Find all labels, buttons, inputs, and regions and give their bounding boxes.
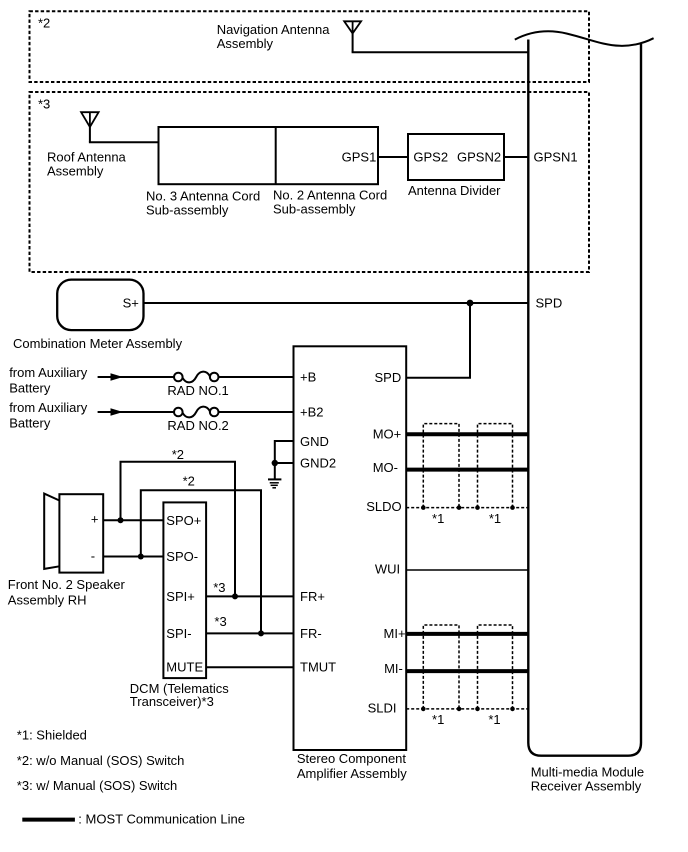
svg-text:SPO+: SPO+: [166, 513, 201, 528]
shield dots SLDI: [421, 707, 515, 712]
shield dots SLDO: [421, 505, 515, 510]
wire SPI+ to FR+: [206, 595, 293, 597]
wire S+ to receiver SPD: [144, 302, 529, 304]
svg-text:GPS2: GPS2: [413, 150, 448, 165]
shield drain wire SLDO: [406, 507, 528, 509]
svg-text:Combination Meter Assembly: Combination Meter Assembly: [13, 336, 183, 351]
antenna (navigation): [344, 21, 361, 52]
svg-text:+: +: [91, 512, 99, 527]
svg-text:SLDI: SLDI: [368, 700, 397, 715]
svg-text:*3: *3: [214, 614, 226, 629]
fuse RAD NO.1: [174, 372, 219, 383]
combination meter assembly box: [57, 280, 143, 331]
wire WUI: [406, 569, 528, 571]
svg-text:SPO-: SPO-: [166, 549, 198, 564]
junction dot FR-: [258, 630, 264, 636]
svg-text:*1: *1: [432, 511, 444, 526]
ground: [268, 463, 281, 488]
legend MOST line sample: [22, 818, 75, 822]
svg-text:*1: Shielded: *1: Shielded: [17, 728, 87, 743]
svg-text:WUI: WUI: [375, 561, 400, 576]
wire roof antenna to cord: [89, 141, 159, 143]
svg-text:MO-: MO-: [373, 460, 398, 475]
svg-text:*1: *1: [488, 712, 500, 727]
arrow (1): [111, 373, 124, 381]
svg-text:FR-: FR-: [300, 626, 322, 641]
svg-text:SLDO: SLDO: [366, 499, 401, 514]
antenna cord box (No.3 / No.2): [159, 127, 379, 184]
receiver top break wavy line: [515, 31, 654, 46]
shield drain wire SLDI: [406, 708, 528, 710]
antenna divider box: [408, 134, 504, 180]
svg-text:GPSN1: GPSN1: [534, 150, 578, 165]
amplifier box (stereo component amplifier): [294, 346, 407, 750]
wire speaker - to SPO-: [103, 556, 163, 558]
svg-text:TMUT: TMUT: [300, 660, 336, 675]
svg-text:RAD NO.1: RAD NO.1: [167, 383, 228, 398]
wire SPI- to FR-: [206, 632, 293, 634]
svg-text:SPD: SPD: [375, 370, 402, 385]
svg-text:MI+: MI+: [384, 626, 406, 641]
svg-text:MI-: MI-: [384, 661, 403, 676]
svg-text:RAD NO.2: RAD NO.2: [167, 418, 228, 433]
svg-text:SPI-: SPI-: [166, 626, 191, 641]
wire speaker + to SPO+: [103, 519, 163, 521]
svg-text:*2: *2: [38, 16, 50, 31]
svg-text:Stereo ComponentAmplifier Asse: Stereo ComponentAmplifier Assembly: [297, 751, 407, 781]
svg-text:*3: *3: [38, 97, 50, 112]
svg-text:GPSN2: GPSN2: [457, 150, 501, 165]
junction dot GND: [272, 460, 278, 466]
wire SPD amp to junction: [406, 303, 470, 378]
dashed box *2 (navigation antenna zone): [30, 11, 590, 82]
wire GND: [275, 441, 294, 463]
wire navigation antenna to receiver: [352, 51, 529, 53]
shield box MO 2: [478, 424, 513, 508]
svg-text:Antenna Divider: Antenna Divider: [408, 183, 501, 198]
junction dot speaker -: [138, 554, 144, 560]
svg-text:+B: +B: [300, 370, 316, 385]
svg-text:GND2: GND2: [300, 456, 336, 471]
shield box MO 1: [423, 424, 459, 508]
DCM telematics transceiver box: [163, 502, 206, 678]
svg-text:SPD: SPD: [536, 296, 563, 311]
svg-text:*2: *2: [183, 473, 195, 488]
svg-text:GPS1: GPS1: [342, 150, 377, 165]
svg-text:*1: *1: [489, 511, 501, 526]
svg-text:MO+: MO+: [373, 427, 402, 442]
speaker (front no.2 RH): [44, 494, 103, 573]
wire +B2: [98, 411, 294, 413]
svg-text:FR+: FR+: [300, 589, 325, 604]
shield box MI 2: [478, 625, 513, 709]
wire *2 bypass 2: [141, 490, 261, 633]
svg-text:*3: w/ Manual (SOS) Switch: *3: w/ Manual (SOS) Switch: [17, 778, 177, 793]
MOST line MO+: [406, 432, 528, 436]
svg-text:+B2: +B2: [300, 405, 324, 420]
antenna (roof): [81, 112, 99, 142]
arrow (2): [111, 408, 124, 416]
svg-text:MUTE: MUTE: [166, 660, 203, 675]
svg-text:-: -: [91, 549, 95, 564]
junction dot FR+: [232, 593, 238, 599]
svg-text:GND: GND: [300, 434, 329, 449]
wire *2 bypass 1: [121, 462, 236, 597]
svg-text:Multi-media ModuleReceiver Ass: Multi-media ModuleReceiver Assembly: [531, 764, 644, 793]
junction dot SPD: [467, 300, 474, 307]
wire GPSN2 to GPSN1: [504, 156, 528, 158]
MOST line MI+: [406, 632, 528, 636]
svg-text:S+: S+: [123, 296, 139, 311]
svg-text:*2: w/o Manual (SOS) Switch: *2: w/o Manual (SOS) Switch: [17, 753, 185, 768]
dashed box *3 (roof antenna zone): [30, 92, 590, 272]
svg-text:SPI+: SPI+: [166, 589, 195, 604]
MOST line MI-: [406, 669, 528, 673]
MOST line MO-: [406, 468, 528, 472]
wire GPS1 to GPS2: [378, 156, 408, 158]
svg-text:*2: *2: [172, 447, 184, 462]
svg-text:*3: *3: [213, 580, 225, 595]
wire MUTE to TMUT: [206, 666, 293, 668]
wire GND2: [275, 462, 294, 464]
multi-media module receiver box: [528, 40, 641, 756]
wire +B: [98, 376, 294, 378]
junction dot speaker +: [118, 517, 124, 523]
svg-text:: MOST Communication Line: : MOST Communication Line: [78, 812, 245, 827]
svg-text:*1: *1: [432, 712, 444, 727]
shield box MI 1: [423, 625, 459, 709]
fuse RAD NO.2: [174, 407, 219, 418]
